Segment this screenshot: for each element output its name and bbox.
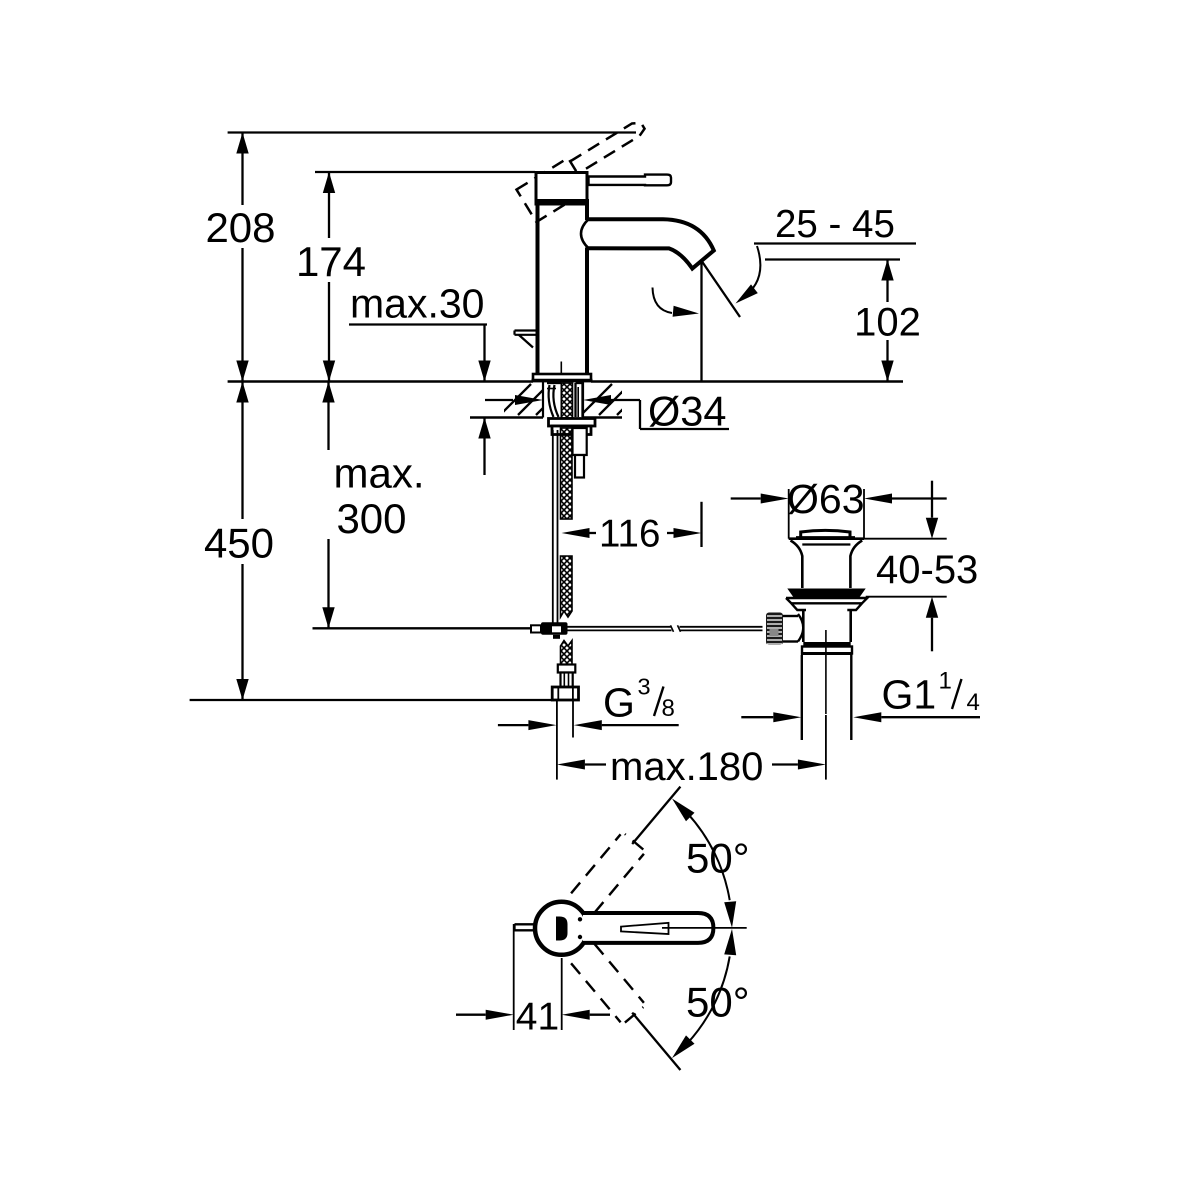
- svg-text:174: 174: [296, 238, 366, 285]
- svg-text:Ø63: Ø63: [787, 476, 865, 522]
- svg-text:50°: 50°: [686, 835, 750, 882]
- angle 50 lower extension line: [632, 1013, 680, 1070]
- drain seal washer: [786, 598, 867, 610]
- drain rubber seal: [787, 589, 865, 599]
- faucet handle up-position dashed cap: [516, 158, 587, 222]
- mounting nut: [552, 426, 591, 435]
- svg-text:G1: G1: [882, 672, 937, 718]
- svg-text:300: 300: [336, 495, 406, 542]
- countertop hatching left: [500, 384, 567, 415]
- angle 50 upper arc: [687, 813, 730, 900]
- drain push cap: [801, 530, 850, 538]
- drain centerline: [825, 630, 827, 714]
- dimension 174 reference line: [315, 171, 535, 173]
- dimension G3/8 arrows: [498, 724, 529, 726]
- svg-text:40-53: 40-53: [876, 548, 978, 592]
- dimension 450 extension line: [241, 382, 243, 520]
- tee body: [541, 622, 568, 635]
- top view index dots: [578, 917, 582, 921]
- faucet lever handle: [589, 175, 672, 186]
- top view cartridge hole: [556, 917, 568, 941]
- svg-text:3: 3: [638, 674, 651, 700]
- hose fitting below nut: [573, 428, 587, 455]
- dimension 450 reference line: [190, 699, 554, 701]
- dimension max.300 extension line: [327, 382, 329, 451]
- svg-text:25 - 45: 25 - 45: [775, 203, 895, 246]
- countertop hatching right: [581, 384, 648, 415]
- top view handle 50 down dashed: [594, 944, 644, 1003]
- top view lever handle: [583, 913, 713, 943]
- svg-text:50°: 50°: [686, 979, 750, 1026]
- svg-text:450: 450: [204, 520, 274, 567]
- dimension 25-45 underline: [754, 242, 916, 244]
- dimension G1 1/4 arrows: [741, 716, 773, 718]
- supply pipe stub: [556, 700, 558, 780]
- svg-text:8: 8: [662, 695, 675, 722]
- drain side port: [783, 615, 798, 617]
- drain bottom ring: [803, 642, 850, 647]
- countertop bottom line: [470, 416, 543, 419]
- angle 50 upper extension line: [632, 787, 680, 844]
- top view faucet body circle: [535, 902, 588, 955]
- threaded shank crosshatch: [561, 383, 572, 418]
- mounting washer: [549, 419, 596, 427]
- svg-text:max.180: max.180: [610, 745, 763, 789]
- faucet axis centerline: [560, 362, 562, 383]
- dimension max.30 leader line: [349, 323, 487, 325]
- swivel curved arrow: [653, 288, 673, 314]
- counter hole left edge: [542, 382, 544, 418]
- svg-text:Ø34: Ø34: [648, 387, 726, 434]
- dimension Ø63 arrows: [731, 497, 761, 499]
- dimension 40-53 reference lines: [864, 538, 947, 540]
- svg-text:116: 116: [599, 513, 660, 556]
- dimension 41 arrows: [456, 1014, 486, 1016]
- dimension 116 arrows: [562, 528, 590, 538]
- max.300 reference line: [313, 627, 532, 629]
- svg-text:max.: max.: [333, 450, 424, 497]
- hose below tee crosshatch: [561, 641, 573, 665]
- angle 50 lower arc: [687, 956, 730, 1043]
- countertop line: [228, 380, 533, 383]
- svg-text:1: 1: [939, 668, 952, 695]
- dimension 102 reference line: [765, 258, 900, 260]
- dimension max.30 lower arrow: [483, 418, 485, 476]
- spout outlet extension line: [700, 262, 702, 382]
- counter hole right edge: [582, 382, 584, 418]
- spout outlet curved arrow: [741, 246, 760, 299]
- svg-text:102: 102: [854, 301, 921, 345]
- aerator angle line: [702, 262, 740, 318]
- dimension Ø34 arrows: [485, 399, 513, 401]
- hose end collar: [558, 665, 576, 673]
- dimension max.180 extension right: [825, 715, 827, 780]
- dimension 208 extension line: [241, 133, 243, 206]
- top view lever slot: [621, 923, 669, 934]
- supply hose curve in hole: [549, 385, 559, 417]
- svg-text:41: 41: [516, 996, 559, 1039]
- faucet spout: [589, 219, 714, 268]
- supply hose lower crosshatch: [561, 556, 573, 617]
- faucet base escutcheon: [533, 374, 591, 381]
- G3/8 connection nut: [552, 687, 578, 700]
- svg-text:max.30: max.30: [350, 281, 484, 327]
- top view centerline: [662, 927, 747, 929]
- dimension max.180 arrows: [557, 760, 585, 770]
- dimension 174 extension line: [328, 172, 330, 238]
- dimension 208 top reference line: [228, 131, 636, 133]
- svg-text:4: 4: [967, 689, 980, 716]
- faucet cartridge cap: [536, 173, 587, 202]
- faucet handle up-position dashed lever: [570, 119, 646, 173]
- svg-text:208: 208: [205, 204, 275, 251]
- top view limiter tab: [515, 923, 536, 925]
- supply hose upper crosshatch: [561, 428, 573, 519]
- drain actuation rod: [568, 626, 672, 628]
- drain pull rod: [552, 430, 554, 623]
- dimension 102 extension line: [886, 260, 888, 303]
- drain valve body: [802, 610, 805, 642]
- drain knurled knob: [766, 613, 783, 646]
- dimension 41 extension lines: [513, 924, 515, 1030]
- drain flange: [789, 539, 864, 588]
- rod end fitting: [531, 625, 541, 632]
- svg-text:G: G: [603, 680, 635, 726]
- temperature limiter tab: [515, 331, 537, 348]
- faucet body: [538, 204, 588, 374]
- pull rod tube in hole: [574, 383, 576, 417]
- drain tailpipe: [801, 655, 803, 740]
- top view handle 50 up dashed: [571, 834, 621, 893]
- dimension 40-53 arrows: [931, 481, 933, 518]
